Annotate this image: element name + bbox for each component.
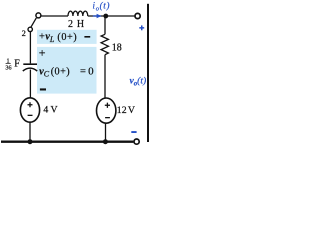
- right border bar: [147, 4, 149, 142]
- switch top contact node: [36, 13, 41, 18]
- svg-text:=: =: [80, 66, 86, 77]
- svg-text:vo(t): vo(t): [130, 75, 147, 87]
- junction node top: [103, 14, 108, 19]
- svg-text:12 V: 12 V: [117, 105, 135, 116]
- wire: inductor to top-right terminal: [88, 15, 135, 17]
- svg-text:2: 2: [22, 28, 26, 38]
- terminal minus sign: [131, 131, 136, 133]
- highlight box for vL(0+) note: [37, 30, 97, 44]
- wire: junction down to resistor: [104, 18, 106, 34]
- svg-text:36: 36: [5, 64, 11, 71]
- current arrow: [93, 15, 101, 17]
- capacitor C1 curved bottom plate: [23, 68, 37, 71]
- resistor R1 18 ohm zigzag: [101, 34, 108, 54]
- svg-text:+: +: [39, 46, 46, 60]
- junction node bottom right: [103, 139, 108, 144]
- svg-text:(0+): (0+): [57, 32, 77, 43]
- switch arm: [31, 18, 36, 27]
- svg-text:(0+): (0+): [51, 66, 70, 77]
- svg-text:18: 18: [112, 43, 122, 54]
- output terminal top right: [135, 13, 140, 18]
- svg-text:2 H: 2 H: [68, 19, 85, 30]
- svg-text:0: 0: [88, 65, 94, 77]
- bottom rail wire: [1, 140, 133, 142]
- inductor L1 2H coil: [68, 11, 88, 16]
- voltage source V2 12V: [97, 98, 116, 123]
- wire: 4V source to bottom rail: [29, 122, 31, 142]
- wire: resistor to 12V source: [104, 55, 106, 99]
- voltage source V1 4V: [20, 98, 39, 122]
- output terminal bottom right: [134, 139, 139, 144]
- wire: node 2 down to capacitor: [29, 32, 31, 64]
- terminal plus sign: [139, 25, 144, 30]
- junction node bottom left: [28, 139, 33, 144]
- wire: top rail from switch to inductor: [41, 15, 68, 17]
- svg-text:+: +: [39, 32, 45, 43]
- capacitor value 1/36 F: [5, 58, 20, 72]
- svg-text:4 V: 4 V: [43, 105, 57, 116]
- svg-text:F: F: [14, 59, 20, 70]
- capacitor C1 top plate: [23, 63, 37, 65]
- highlight box for vC(0+) note: [37, 47, 97, 94]
- annotation minus for vC: [40, 88, 46, 90]
- svg-text:io(t): io(t): [93, 1, 111, 13]
- wire: capacitor to 4V source: [29, 70, 31, 98]
- switch position node 2: [28, 27, 32, 31]
- wire: 12V source to bottom rail: [105, 123, 107, 142]
